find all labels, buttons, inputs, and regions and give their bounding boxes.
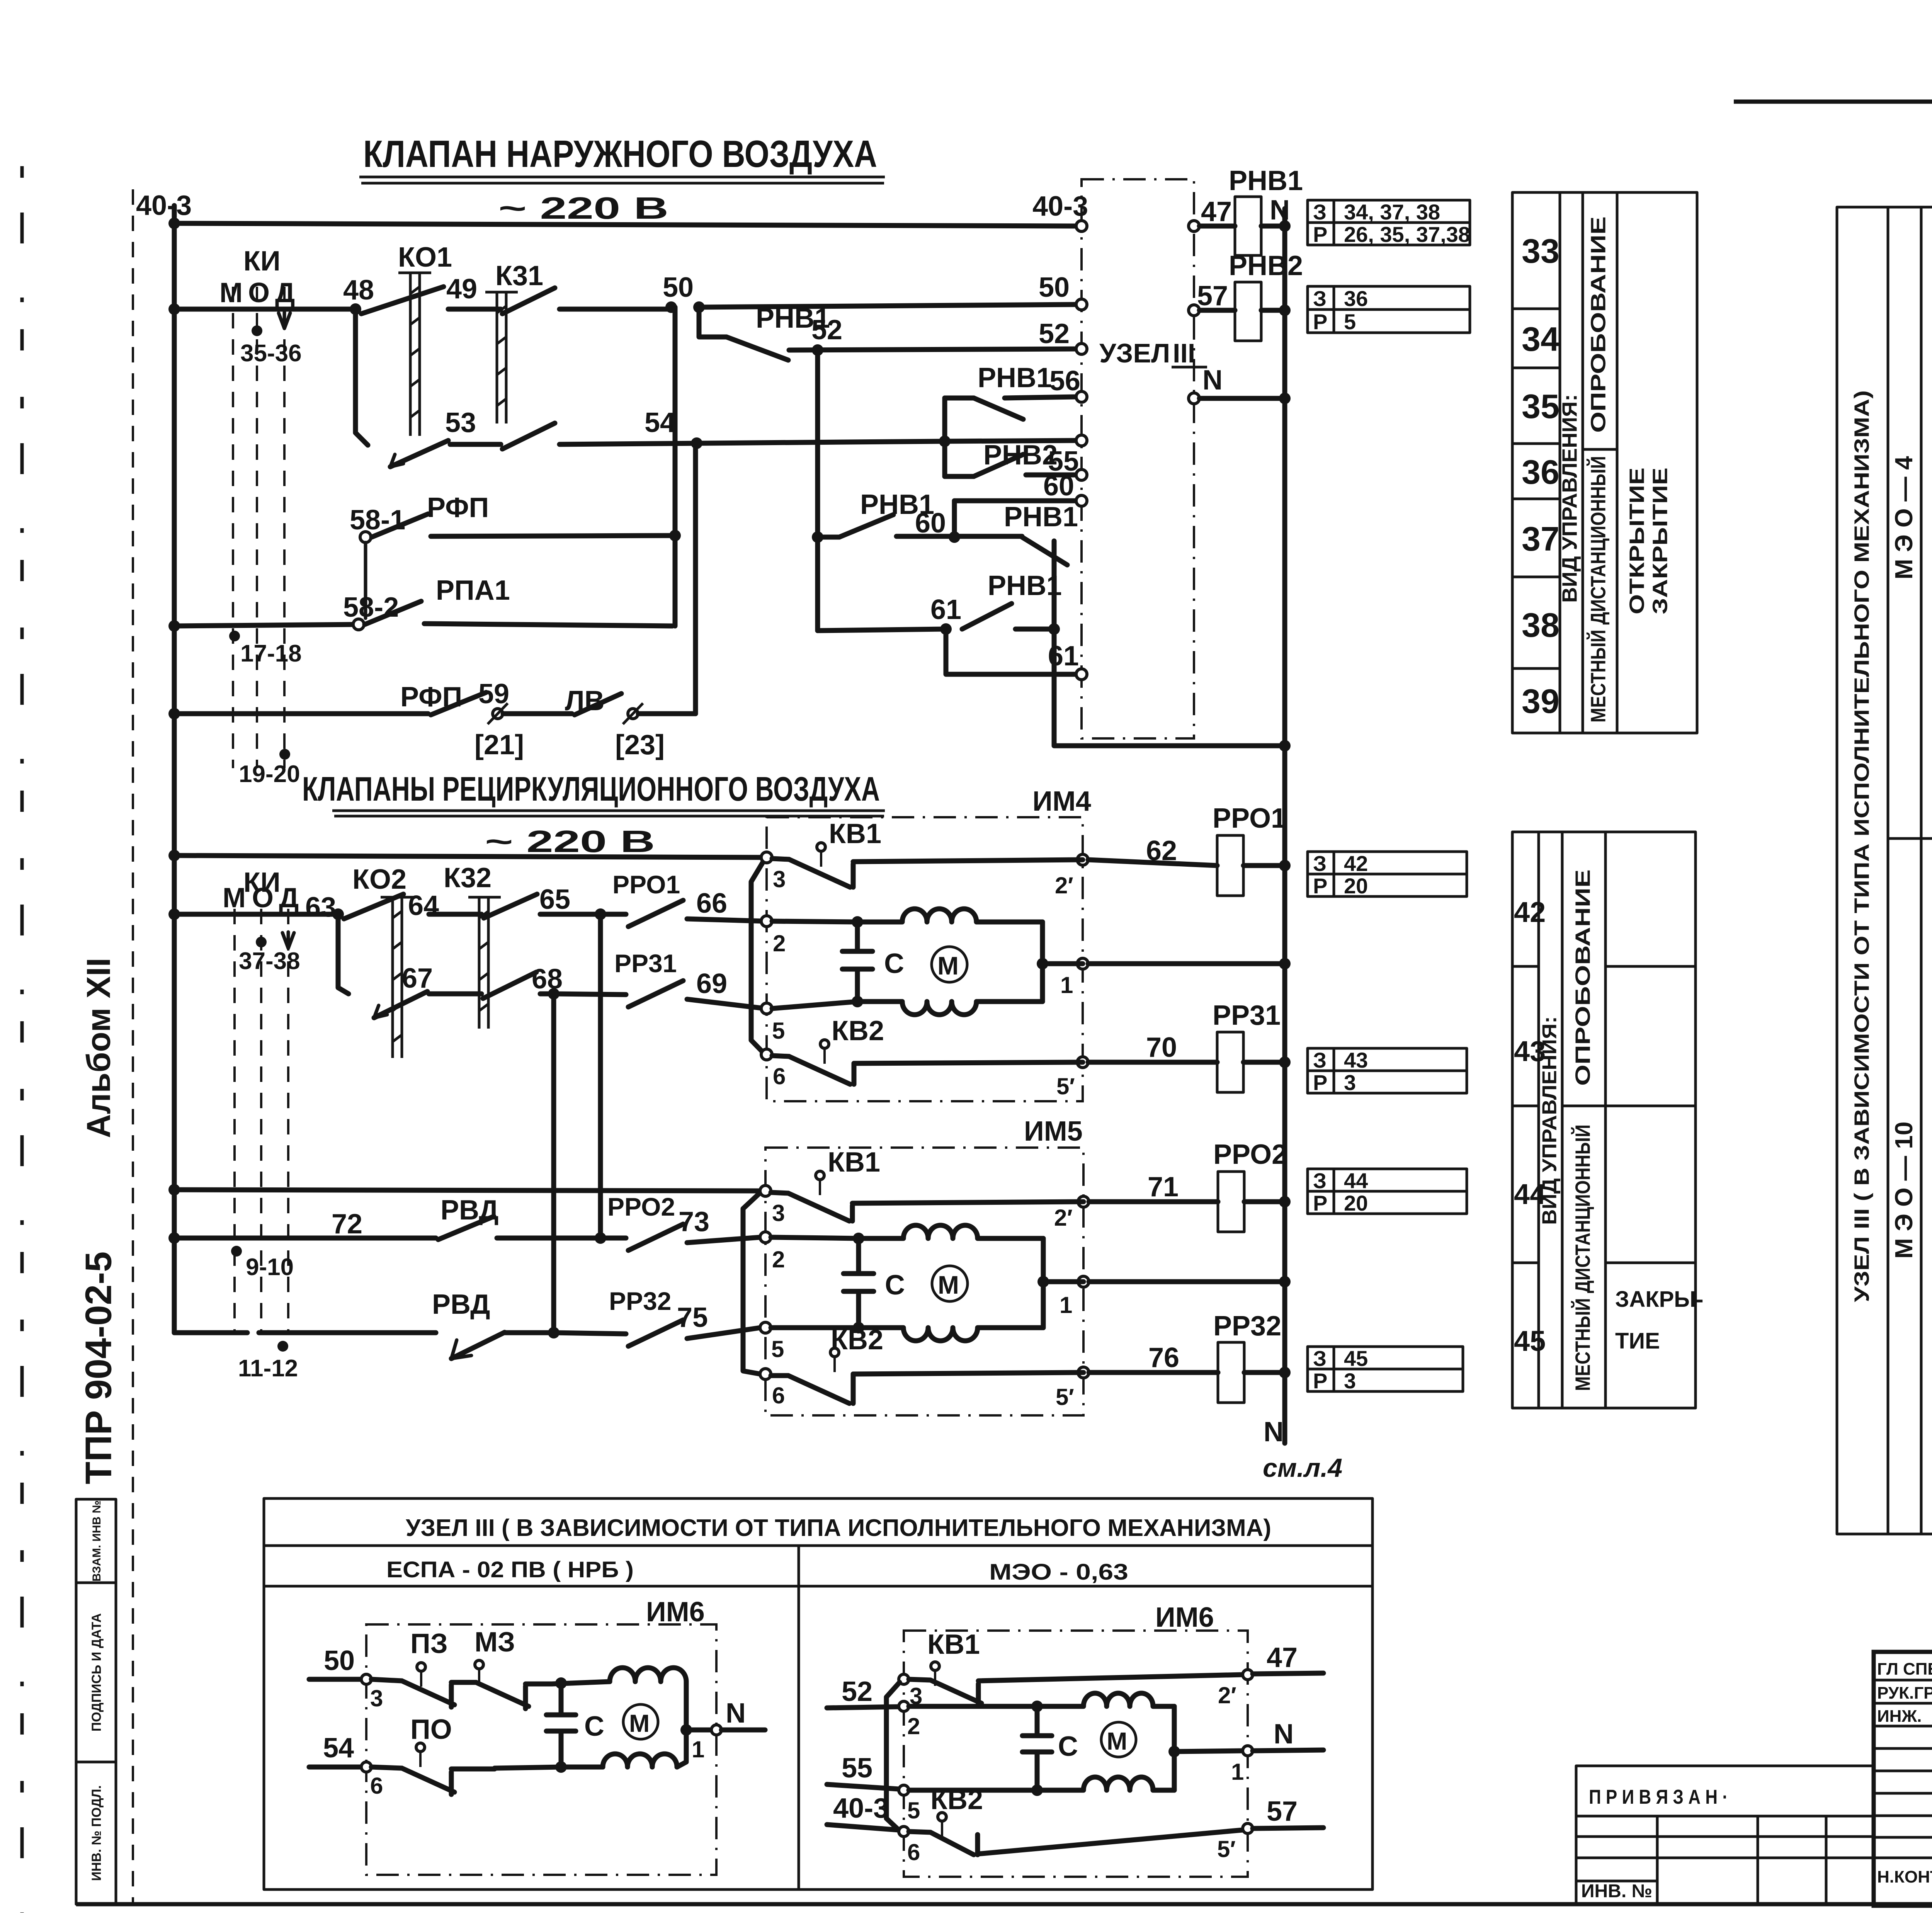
contact ЛВ xyxy=(575,694,621,715)
terminal 5 meo xyxy=(899,1785,909,1795)
espa capacitor xyxy=(546,1683,604,1767)
limit switch КВ1 (IM4) xyxy=(772,818,881,887)
wire 64 xyxy=(429,912,481,917)
contact К32 lower xyxy=(483,972,536,998)
svg-text:76: 76 xyxy=(1148,1342,1179,1373)
svg-text:3: 3 xyxy=(772,1200,785,1226)
svg-text:2: 2 xyxy=(907,1713,920,1739)
junction 35-36 xyxy=(252,325,262,336)
contact РФП 59 xyxy=(431,692,486,715)
svg-text:ГЛ СПЕЦ.: ГЛ СПЕЦ. xyxy=(1877,1660,1932,1679)
contact КО2 (63-64) xyxy=(344,894,403,919)
riser A (50 to 58-2) xyxy=(673,307,678,626)
torn left edge marks xyxy=(20,166,24,1913)
row 55-2 meo xyxy=(827,1753,899,1789)
contact КО1 (48-49) xyxy=(361,287,444,314)
svg-text:6: 6 xyxy=(772,1383,785,1408)
svg-text:Д: Д xyxy=(275,277,295,308)
svg-text:45: 45 xyxy=(1344,1346,1368,1371)
column divider xyxy=(798,1546,800,1889)
svg-text:РР31: РР31 xyxy=(614,949,677,978)
svg-text:50: 50 xyxy=(663,272,694,303)
svg-text:МЕСТНЫЙ ДИСТАНЦИОННЫЙ: МЕСТНЫЙ ДИСТАНЦИОННЫЙ xyxy=(1586,456,1610,723)
IM5 terminals xyxy=(760,1185,771,1196)
svg-text:ПЗ: ПЗ xyxy=(410,1628,448,1659)
svg-text:ОТКРЫТИЕ: ОТКРЫТИЕ xyxy=(1625,468,1648,614)
svg-text:ВИД УПРАВЛЕНИЯ:: ВИД УПРАВЛЕНИЯ: xyxy=(1539,1016,1561,1225)
header rules xyxy=(264,1546,1372,1586)
svg-text:33: 33 xyxy=(1522,232,1560,270)
svg-text:20: 20 xyxy=(1344,1191,1368,1215)
svg-text:М: М xyxy=(629,1709,650,1737)
svg-text:N: N xyxy=(726,1698,746,1729)
wire row 60 from terminal xyxy=(954,498,1075,503)
wire row 58-2 left xyxy=(174,624,359,626)
svg-text:РНВ1: РНВ1 xyxy=(1229,165,1303,196)
wire 73 into IM5 xyxy=(687,1237,760,1243)
row 50-3 espa xyxy=(309,1645,402,1711)
row 52-3 meo xyxy=(827,1674,922,1709)
svg-text:~ 220 В: ~ 220 В xyxy=(498,191,668,225)
svg-text:КЛАПАНЫ РЕЦИРКУЛЯЦИОННОГО ВОЗД: КЛАПАНЫ РЕЦИРКУЛЯЦИОННОГО ВОЗДУХА xyxy=(302,770,880,808)
svg-text:КВ2: КВ2 xyxy=(930,1784,983,1815)
IM5 dashed box xyxy=(765,1148,1083,1415)
branch РНВ1 to row 52 xyxy=(699,307,726,337)
svg-text:47: 47 xyxy=(1201,196,1232,227)
IM4 bottom winding xyxy=(857,1002,1043,1015)
row 40-3 -5 meo xyxy=(827,1793,899,1830)
svg-text:КО2: КО2 xyxy=(352,864,406,895)
wire 75 into IM5 xyxy=(687,1328,760,1338)
svg-text:35: 35 xyxy=(1522,387,1560,425)
wire КВ1 out to 2' (IM5) xyxy=(852,1202,1083,1203)
svg-text:КВ2: КВ2 xyxy=(831,1325,883,1355)
svg-text:О: О xyxy=(248,277,270,308)
svg-text:57: 57 xyxy=(1197,281,1228,311)
svg-text:2: 2 xyxy=(772,1247,785,1272)
meo top winding xyxy=(1037,1693,1174,1706)
espa bottom corner up xyxy=(677,1730,686,1767)
N bus vertical xyxy=(1282,209,1287,1443)
svg-text:63: 63 xyxy=(305,892,336,923)
svg-text:ИМ6: ИМ6 xyxy=(1155,1602,1214,1633)
IM4 motor top row xyxy=(772,921,857,922)
svg-text:ИМ5: ИМ5 xyxy=(1024,1116,1083,1147)
svg-text:РРО1: РРО1 xyxy=(1213,803,1286,834)
svg-text:Р: Р xyxy=(1313,1369,1327,1393)
row 54-6 espa xyxy=(309,1733,402,1799)
svg-text:71: 71 xyxy=(1148,1172,1179,1202)
IM5 bottom winding xyxy=(859,1328,1043,1341)
riser 68->75 xyxy=(551,994,556,1333)
wire ~220V bus2 xyxy=(174,855,765,857)
svg-text:34, 37, 38: 34, 37, 38 xyxy=(1344,200,1440,224)
inner column lines xyxy=(1888,207,1921,1534)
wire КВ2 out to 5' xyxy=(854,1062,1083,1063)
svg-text:2′: 2′ xyxy=(1055,872,1073,898)
relay coil РНВ1 xyxy=(1235,197,1261,255)
svg-text:37: 37 xyxy=(1522,520,1560,558)
riser 65->72 xyxy=(598,914,603,1238)
svg-text:72: 72 xyxy=(332,1209,362,1240)
junction dots on left bus xyxy=(168,218,180,229)
svg-text:ЗАКРЫТИЕ: ЗАКРЫТИЕ xyxy=(1648,468,1672,614)
button МЗ xyxy=(474,1627,552,1709)
contact РНВ1 (60 row left) xyxy=(839,515,893,537)
svg-text:РРО2: РРО2 xyxy=(607,1192,675,1221)
lower signal table xyxy=(1512,832,1703,1408)
uzel III type box xyxy=(1837,207,1932,1534)
svg-text:39: 39 xyxy=(1522,682,1560,720)
riser D (54 to ЛВ row) xyxy=(693,442,698,714)
wire row 67-68 xyxy=(429,992,481,997)
svg-text:Д: Д xyxy=(279,883,299,913)
svg-text:2: 2 xyxy=(773,930,786,956)
svg-text:66: 66 xyxy=(696,888,727,919)
contact table row57 xyxy=(1308,286,1470,334)
svg-text:50: 50 xyxy=(324,1645,355,1676)
svg-text:52: 52 xyxy=(811,315,842,345)
contact РНВ2 (55) xyxy=(945,440,1079,477)
wire row 60-left xyxy=(818,535,839,540)
svg-text:44: 44 xyxy=(1344,1168,1368,1193)
meo N row xyxy=(1174,1751,1243,1752)
wire 68 row xyxy=(540,992,554,997)
contact РФП (58-1) xyxy=(372,514,428,537)
svg-text:55: 55 xyxy=(842,1753,872,1784)
svg-text:ЕСПА - 02 ПВ ( НРБ ): ЕСПА - 02 ПВ ( НРБ ) xyxy=(386,1557,634,1582)
junction top espa xyxy=(552,1682,610,1684)
svg-text:ВЗАМ. ИНВ №: ВЗАМ. ИНВ № xyxy=(90,1500,103,1582)
svg-text:МЕСТНЫЙ ДИСТАНЦИОННЫЙ: МЕСТНЫЙ ДИСТАНЦИОННЫЙ xyxy=(1571,1124,1594,1391)
contact 67 with arrow xyxy=(374,992,427,1018)
upper signal table xyxy=(1512,192,1697,733)
svg-text:60: 60 xyxy=(1043,471,1074,502)
svg-text:РФП: РФП xyxy=(400,682,462,713)
wire 61 down to N heavy xyxy=(1054,629,1285,746)
contact table 70 xyxy=(1308,1048,1467,1095)
IM5 motor top row xyxy=(771,1237,859,1238)
svg-text:40-3: 40-3 xyxy=(1032,191,1088,222)
bracket 56-54-55 xyxy=(942,398,947,476)
wire row 1 (IM5) xyxy=(1043,1279,1083,1284)
svg-text:73: 73 xyxy=(679,1206,709,1237)
svg-text:6: 6 xyxy=(773,1063,786,1089)
svg-text:1: 1 xyxy=(1060,1292,1072,1318)
meo right side xyxy=(1172,1706,1177,1790)
svg-text:[23]: [23] xyxy=(615,730,665,760)
wire MOD2 row 63 xyxy=(174,912,338,917)
svg-text:1: 1 xyxy=(1231,1759,1244,1785)
wire MOD row 48 xyxy=(174,307,355,312)
wire 65 row xyxy=(540,912,600,917)
bracket 60 down to РНВ1 row xyxy=(952,501,957,537)
wire 62 row РРО1 coil xyxy=(1088,860,1217,866)
svg-text:РР32: РР32 xyxy=(1213,1311,1281,1342)
svg-text:О: О xyxy=(252,883,274,913)
wire 59-ЛВ xyxy=(503,711,572,716)
svg-text:19-20: 19-20 xyxy=(239,761,300,787)
KI MOD dashed linkage lines block1 xyxy=(233,287,284,768)
left vertical bus xyxy=(172,206,177,1333)
wire 50 row xyxy=(560,307,671,312)
svg-text:[21]: [21] xyxy=(474,730,524,760)
svg-text:МЗ: МЗ xyxy=(474,1627,515,1658)
svg-text:КИ: КИ xyxy=(243,246,281,277)
svg-text:РПА1: РПА1 xyxy=(436,575,510,606)
svg-text:РНВ2: РНВ2 xyxy=(983,440,1058,471)
svg-text:ЗАКРЫ-: ЗАКРЫ- xyxy=(1615,1287,1703,1312)
svg-text:ИНВ. № ПОДЛ.: ИНВ. № ПОДЛ. xyxy=(89,1785,104,1881)
terminal 58-1 xyxy=(360,532,371,543)
wire row 76 РР32 coil xyxy=(1089,1370,1218,1375)
svg-text:20: 20 xyxy=(1344,874,1368,898)
svg-text:ОПРОБОВАНИЕ: ОПРОБОВАНИЕ xyxy=(1587,216,1610,433)
signature names xyxy=(1877,1658,1932,1886)
IM4 top winding xyxy=(857,909,1043,922)
svg-text:Р: Р xyxy=(1313,222,1327,247)
espa bottom winding xyxy=(603,1754,677,1767)
svg-text:З: З xyxy=(1313,851,1327,876)
svg-text:17-18: 17-18 xyxy=(240,640,302,667)
riser C (52 down) xyxy=(815,350,820,631)
svg-text:48: 48 xyxy=(343,275,374,306)
svg-text:42: 42 xyxy=(1344,851,1368,876)
relay coil РР31 xyxy=(1217,1032,1243,1092)
svg-text:ТПР 904-02-5: ТПР 904-02-5 xyxy=(78,1252,119,1485)
svg-text:Н.КОНТР.: Н.КОНТР. xyxy=(1877,1867,1932,1886)
Uzel III dashed box xyxy=(1082,179,1194,738)
svg-text:1: 1 xyxy=(1060,972,1073,998)
wire row 71 РРО2 coil xyxy=(1089,1199,1218,1204)
terminal 58-2 xyxy=(353,619,364,630)
wire 66 into IM4 xyxy=(687,919,765,921)
svg-text:ТИЕ: ТИЕ xyxy=(1615,1328,1660,1354)
IM4 right side xyxy=(1040,922,1045,1002)
svg-text:см.л.4: см.л.4 xyxy=(1263,1453,1342,1483)
svg-text:36: 36 xyxy=(1522,453,1560,491)
svg-text:ЛВ: ЛВ xyxy=(565,685,605,716)
IM6 meo dashed box xyxy=(904,1631,1248,1877)
svg-text:С: С xyxy=(885,1270,905,1301)
connector 3 to 6 meo xyxy=(886,1682,900,1831)
N terminal right edge xyxy=(1189,393,1199,404)
К32 mechanical link xyxy=(468,897,501,1029)
IM4 dashed box xyxy=(767,817,1083,1101)
relay coil РРО1 xyxy=(1217,835,1243,896)
contact РР32 (75) xyxy=(554,1333,626,1334)
contact table 62 xyxy=(1308,851,1467,898)
svg-text:5: 5 xyxy=(1344,310,1356,334)
svg-text:З: З xyxy=(1313,286,1327,311)
meo top row xyxy=(909,1704,1037,1709)
wire row 52 xyxy=(789,349,1076,350)
bracket КО2 lower xyxy=(338,914,349,994)
stamp box ПОДПИСЬ И ДАТА xyxy=(76,1583,116,1762)
svg-text:3: 3 xyxy=(370,1685,383,1711)
svg-text:6: 6 xyxy=(907,1839,920,1865)
svg-text:К31: К31 xyxy=(495,260,543,291)
svg-text:УЗЕЛ III ( В ЗАВИСИМОСТИ ОТ ТИ: УЗЕЛ III ( В ЗАВИСИМОСТИ ОТ ТИПА ИСПОЛНИ… xyxy=(406,1515,1271,1541)
svg-text:N: N xyxy=(1264,1417,1284,1447)
terminal 2 meo xyxy=(899,1701,909,1711)
meo motor xyxy=(1101,1722,1136,1757)
svg-text:С: С xyxy=(1058,1731,1078,1762)
svg-text:43: 43 xyxy=(1344,1048,1368,1072)
contact 53 with arrow xyxy=(390,440,448,467)
КО2 mechanical link xyxy=(381,897,413,1058)
wire 53 riser from node 48 xyxy=(355,309,368,445)
IM5 bottom row from term5 xyxy=(771,1325,859,1330)
svg-text:РВД: РВД xyxy=(440,1195,498,1226)
contact РНВ1 (61) xyxy=(962,604,1012,629)
contact РРО1 (65-66) xyxy=(600,912,626,917)
contact РВД (75) with arrow xyxy=(451,1332,505,1359)
svg-text:ИМ4: ИМ4 xyxy=(1032,786,1091,817)
svg-text:6: 6 xyxy=(370,1773,383,1799)
svg-text:КВ1: КВ1 xyxy=(828,1147,880,1178)
svg-text:К32: К32 xyxy=(444,862,492,893)
wire row 61 left xyxy=(818,629,946,631)
svg-text:34: 34 xyxy=(1522,320,1560,358)
svg-text:49: 49 xyxy=(446,274,477,304)
wire N row xyxy=(1199,396,1285,401)
limit switch КВ1 (IM5) xyxy=(771,1147,880,1221)
contact table 76 xyxy=(1308,1346,1463,1393)
bracket 61 to terminal xyxy=(946,629,1076,674)
svg-text:52: 52 xyxy=(1039,318,1070,349)
espa bottom row xyxy=(495,1767,561,1768)
wire row 75 xyxy=(174,1330,247,1335)
relay coil РНВ2 xyxy=(1235,282,1261,341)
svg-text:РРО2: РРО2 xyxy=(1213,1139,1287,1170)
junction 9-10 xyxy=(231,1246,242,1257)
svg-text:С: С xyxy=(884,948,904,979)
svg-text:40-3: 40-3 xyxy=(136,190,192,221)
svg-text:70: 70 xyxy=(1146,1032,1177,1063)
svg-text:ИМ6: ИМ6 xyxy=(646,1597,705,1628)
contact РНВ1 (56) xyxy=(945,362,1080,419)
meo capacitor xyxy=(1022,1706,1078,1790)
svg-text:ОПРОБОВАНИЕ: ОПРОБОВАНИЕ xyxy=(1571,869,1594,1086)
wire 61 fixed xyxy=(1015,627,1054,632)
box terminals left xyxy=(1076,221,1087,231)
svg-text:ИНЖ.: ИНЖ. xyxy=(1877,1707,1922,1726)
junction 37-38 xyxy=(256,937,267,947)
svg-text:35-36: 35-36 xyxy=(240,340,302,367)
divider M90-4 / M90-10 xyxy=(1888,837,1932,840)
limit switch КВ2 (IM5) xyxy=(771,1325,883,1403)
wire row 58-1 xyxy=(431,536,675,536)
meo bottom row xyxy=(909,1788,1037,1793)
contact РРО2 (73) xyxy=(600,1236,626,1241)
junction 19-20 xyxy=(279,749,290,760)
node 52 xyxy=(812,344,823,356)
svg-text:РНВ2: РНВ2 xyxy=(1229,250,1303,281)
svg-text:ПОДПИСЬ И ДАТА: ПОДПИСЬ И ДАТА xyxy=(89,1613,104,1731)
espa top winding xyxy=(610,1668,686,1682)
svg-text:ИНВ. №: ИНВ. № xyxy=(1581,1881,1652,1901)
contact РПА1 (58-2) xyxy=(365,601,421,624)
svg-text:З: З xyxy=(1313,1346,1327,1371)
bracket right contact to row61 xyxy=(1052,541,1057,629)
terminal 6 meo and КВ2 xyxy=(899,1827,909,1837)
svg-text:КВ2: КВ2 xyxy=(832,1015,884,1046)
IM6 espa dashed box xyxy=(366,1624,716,1875)
svg-text:ВИД УПРАВЛЕНИЯ:: ВИД УПРАВЛЕНИЯ: xyxy=(1558,394,1581,603)
svg-text:2′: 2′ xyxy=(1218,1682,1236,1708)
svg-text:Альбом XII: Альбом XII xyxy=(80,958,117,1138)
svg-text:КО1: КО1 xyxy=(398,242,452,273)
svg-text:N: N xyxy=(1274,1719,1294,1750)
IM4 capacitor C xyxy=(842,922,904,1002)
svg-text:Р: Р xyxy=(1313,310,1327,334)
svg-text:З: З xyxy=(1313,200,1327,224)
wire 50 to uzel xyxy=(699,304,1076,307)
svg-text:М: М xyxy=(937,951,959,980)
svg-text:65: 65 xyxy=(539,884,570,915)
uzel III bottom box xyxy=(264,1498,1372,1889)
svg-text:Р: Р xyxy=(1313,1070,1327,1095)
IM5 motor М xyxy=(932,1266,968,1301)
svg-text:45: 45 xyxy=(1514,1325,1546,1357)
contact К31 lower xyxy=(502,423,555,449)
wire row 54 xyxy=(560,440,1076,444)
svg-text:РУК.ГР.: РУК.ГР. xyxy=(1877,1684,1932,1702)
title block main frame xyxy=(1874,1652,1932,1906)
node on riser A row58-1 xyxy=(669,530,681,541)
svg-text:КВ1: КВ1 xyxy=(829,818,881,849)
contact table 71 xyxy=(1308,1168,1467,1215)
wire КВ1 out to 2' xyxy=(853,860,1083,862)
bus riser into IM4 term6 xyxy=(751,859,765,1054)
svg-text:5′: 5′ xyxy=(1056,1073,1075,1099)
svg-text:М: М xyxy=(1107,1727,1127,1755)
svg-text:54: 54 xyxy=(323,1733,354,1764)
contact table row47 xyxy=(1308,200,1470,247)
IM5 capacitor C xyxy=(844,1238,905,1328)
IM4 terminals xyxy=(761,852,772,863)
limit switch КВ2 (IM4) xyxy=(772,1015,884,1084)
riser IM5 term3 to term6 xyxy=(743,1192,760,1374)
svg-text:РФП: РФП xyxy=(427,492,489,523)
svg-text:5′: 5′ xyxy=(1217,1836,1236,1862)
svg-text:38: 38 xyxy=(1522,606,1560,644)
espa right side xyxy=(684,1682,689,1730)
contact К32 (64-65) xyxy=(484,894,537,918)
relay coil РРО2 xyxy=(1218,1172,1244,1232)
svg-text:М: М xyxy=(223,883,246,913)
button ПО xyxy=(402,1714,495,1794)
inv line bottom left of privyazan xyxy=(1576,1880,1657,1883)
svg-text:1: 1 xyxy=(692,1736,704,1762)
svg-text:9-10: 9-10 xyxy=(246,1254,294,1281)
junction 11-12 xyxy=(277,1341,288,1352)
svg-text:П Р И В Я З А Н ·: П Р И В Я З А Н · xyxy=(1589,1786,1728,1808)
svg-text:3: 3 xyxy=(1344,1369,1356,1393)
arrow under Д2 xyxy=(282,932,294,948)
svg-text:42: 42 xyxy=(1514,896,1546,928)
svg-text:58-1: 58-1 xyxy=(350,505,405,536)
arrow under Д xyxy=(279,311,290,328)
svg-text:РВД: РВД xyxy=(432,1289,490,1320)
svg-text:50: 50 xyxy=(1039,272,1070,303)
wire ЛВ to riser D xyxy=(638,711,696,716)
stub 58-1 to 58-2 xyxy=(364,543,367,618)
title underline 2 xyxy=(332,811,885,816)
svg-text:РР32: РР32 xyxy=(609,1287,671,1315)
wire 60 row mid xyxy=(896,534,1022,539)
